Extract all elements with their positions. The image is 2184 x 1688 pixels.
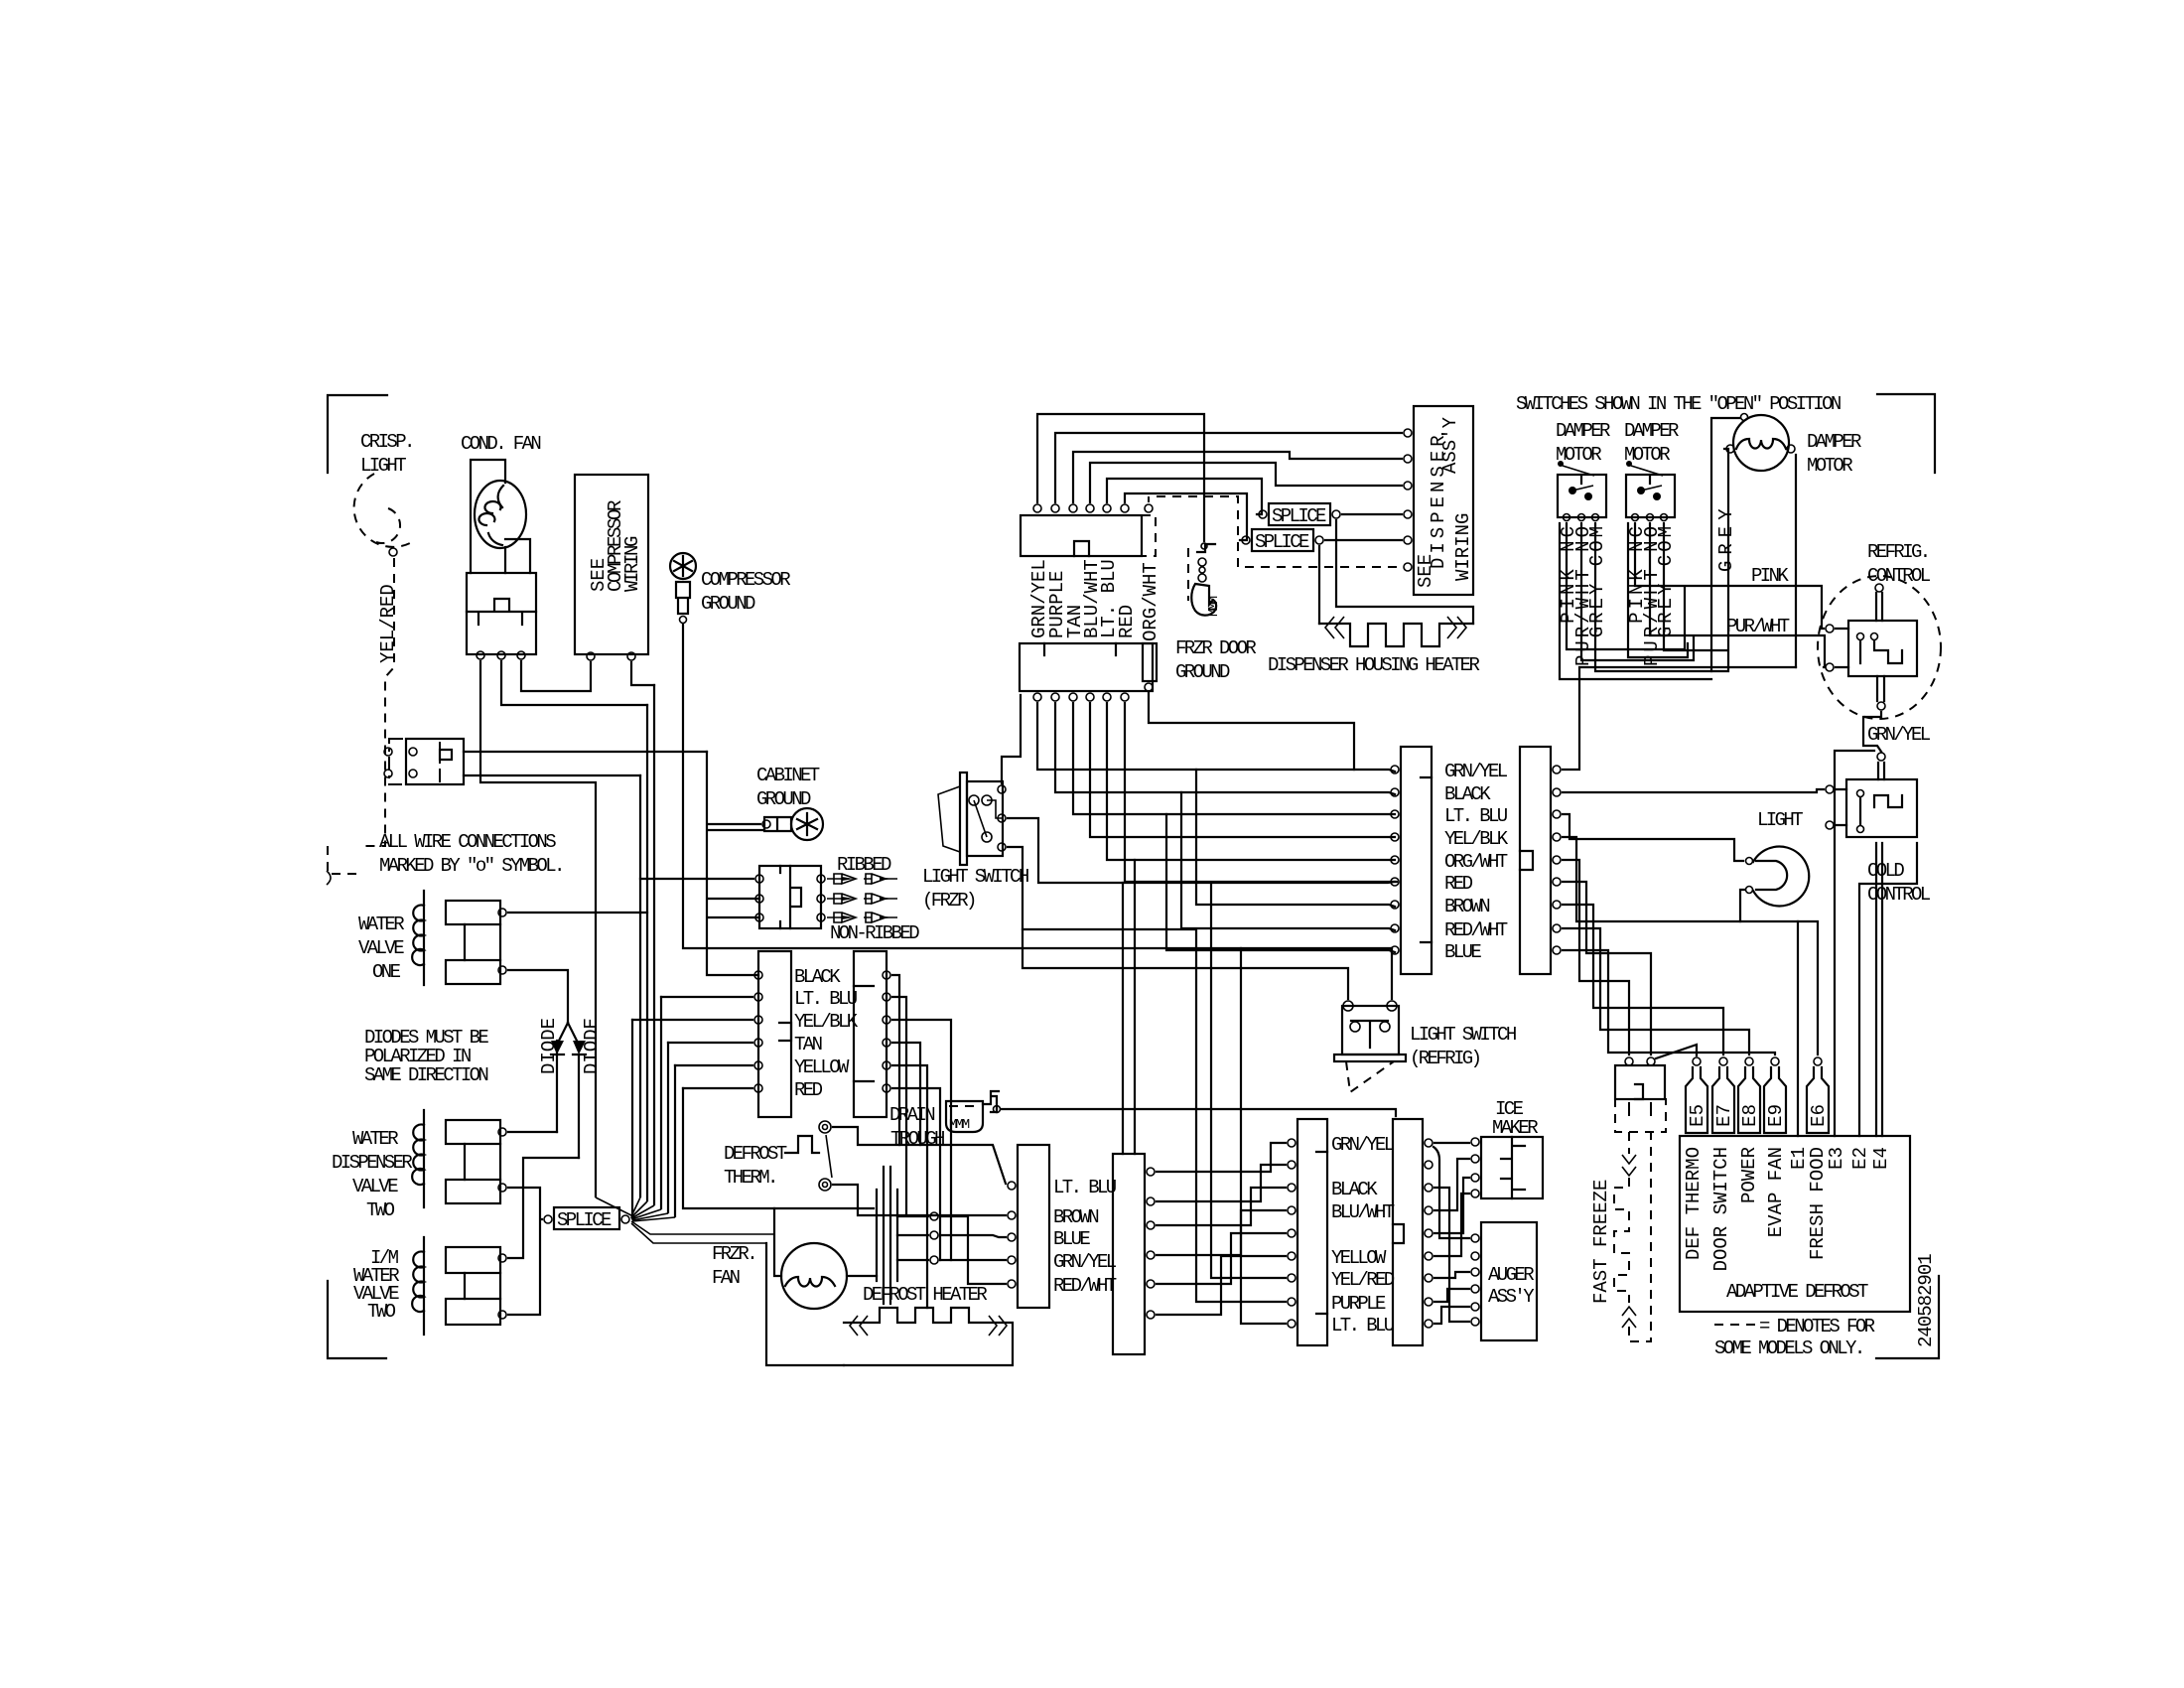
defrost timer relay (dash-dot outline) [389, 739, 440, 784]
left-mid connector female block [758, 951, 791, 1117]
svg-text:FAST FREEZE: FAST FREEZE [1590, 1180, 1612, 1304]
connector terminals right [817, 875, 825, 883]
wire compressor box pin2 to bundle [631, 662, 654, 685]
svg-text:TWO: TWO [367, 1301, 396, 1323]
wire row1 right [892, 975, 899, 1145]
wire relay to cabinet ground riser [464, 751, 707, 753]
wire thermo t3 [940, 1259, 1006, 1261]
svg-text:LIGHT SWITCH: LIGHT SWITCH [1410, 1024, 1516, 1046]
wire fast freeze t2 to E5 [1656, 1045, 1697, 1058]
svg-text:GREY: GREY [1715, 502, 1737, 572]
switch blade [974, 800, 987, 837]
wire dispenser valve bottom to splice [508, 1188, 542, 1315]
wire splice2 down to heater [1318, 546, 1320, 624]
wire to defrost heater return [766, 1243, 844, 1365]
corner mark bottom-right [1876, 1276, 1939, 1358]
svg-text:DAMPER: DAMPER [1807, 431, 1861, 453]
diode right [568, 1023, 579, 1045]
svg-text:RED/WHT: RED/WHT [1053, 1275, 1117, 1297]
svg-text:BLUE: BLUE [1053, 1228, 1090, 1250]
E9 terminal [1771, 1057, 1779, 1065]
svg-text:MAKER: MAKER [1492, 1117, 1538, 1139]
wire thermo t1 [940, 1216, 1006, 1284]
water valve one [423, 891, 425, 985]
freezer fan motor [781, 1243, 847, 1309]
wire connector t1 to auger t1 [1433, 1147, 1469, 1238]
svg-text:NON-RIBBED: NON-RIBBED [830, 922, 919, 944]
wire pin6 to splice [1125, 493, 1247, 540]
wire feed row8 [1181, 792, 1395, 930]
wire drop pin2 [1055, 703, 1395, 794]
svg-text:E6: E6 [1808, 1104, 1830, 1127]
light switch REFRIG base [1334, 1055, 1406, 1061]
crisper light bulb (dashed arc) [354, 474, 412, 547]
wire feed row9 [1166, 814, 1395, 952]
svg-text:MARKED BY "o" SYMBOL.: MARKED BY "o" SYMBOL. [379, 855, 563, 877]
svg-text:DISPENSER HOUSING HEATER: DISPENSER HOUSING HEATER [1268, 654, 1479, 676]
wire pink bus [1567, 523, 1824, 649]
wire pin4 [1090, 463, 1402, 502]
crisper light terminal [389, 548, 397, 556]
wire k3 to light [1563, 814, 1743, 861]
svg-text:LIGHT SWITCH: LIGHT SWITCH [922, 866, 1028, 888]
svg-text:DRAIN: DRAIN [889, 1104, 934, 1126]
connector terminals [477, 651, 484, 659]
wire feed row7 [1196, 770, 1395, 907]
wire pin5 to splice [1107, 479, 1262, 514]
svg-text:EVAP FAN: EVAP FAN [1765, 1147, 1787, 1237]
svg-text:GRN/YEL: GRN/YEL [1331, 1134, 1395, 1156]
light switch REFRIG body [1342, 1006, 1399, 1055]
svg-text:GROUND: GROUND [1175, 661, 1230, 683]
svg-text:YEL/RED: YEL/RED [377, 584, 399, 663]
wire row5 right [892, 1065, 927, 1308]
cold control body [1846, 779, 1917, 837]
svg-text:E2: E2 [1849, 1147, 1871, 1170]
bottom-middle connector male [1393, 1119, 1423, 1345]
wire k6 to fast freeze [1563, 882, 1651, 1055]
refrig control body [1848, 621, 1917, 676]
refrig light bulb [1753, 847, 1809, 907]
svg-text:SAME DIRECTION: SAME DIRECTION [364, 1064, 487, 1086]
wire to auger t6 [1434, 1188, 1469, 1322]
wire k1 to damper motor [1563, 667, 1796, 770]
svg-text:VALVE: VALVE [352, 1176, 398, 1197]
svg-text:BROWN: BROWN [1053, 1206, 1098, 1228]
wire drop pin3 [1073, 703, 1395, 814]
svg-text:LIGHT: LIGHT [360, 455, 406, 477]
wire E4 pair [1876, 843, 1882, 1136]
light switch REFRIG paddle (dashed) [1346, 1061, 1394, 1092]
right-mid connector C1 [1018, 1145, 1049, 1308]
svg-text:SOME MODELS ONLY.: SOME MODELS ONLY. [1714, 1337, 1863, 1359]
left wire bundle verticals [632, 685, 675, 1216]
condenser fan connector block [467, 573, 536, 654]
svg-text:FRZR DOOR: FRZR DOOR [1175, 637, 1256, 659]
box SEE DISPENSER ASS'Y WIRING [1414, 406, 1473, 595]
wire thermo t2 [940, 1235, 1006, 1237]
svg-text:BLACK: BLACK [1331, 1179, 1378, 1200]
svg-text:= DENOTES FOR: = DENOTES FOR [1759, 1316, 1875, 1337]
svg-text:REFRIG.: REFRIG. [1867, 541, 1929, 563]
svg-text:SPLICE: SPLICE [557, 1209, 612, 1231]
dispenser housing heater element [1319, 624, 1473, 646]
wire dashed to relay lower [328, 846, 359, 874]
svg-text:YEL/RED: YEL/RED [1331, 1269, 1395, 1291]
wire E1 [1797, 921, 1799, 1136]
wire to auger t4 [1434, 1289, 1469, 1302]
wire refrig control to cold control [1863, 712, 1881, 752]
svg-text:PUR/WHT: PUR/WHT [1726, 616, 1790, 637]
frzr door connector lower half [1020, 643, 1153, 691]
wire pin2 [1055, 433, 1402, 502]
cabinet ground lug [791, 808, 823, 840]
svg-text:DAMPER: DAMPER [1556, 420, 1610, 442]
wire splice2 to dispenser box [1325, 539, 1402, 541]
connector pins upper [1033, 504, 1041, 512]
condenser fan motor [475, 481, 526, 548]
wire grey com bus [1595, 449, 1728, 671]
auger assembly box [1481, 1222, 1537, 1340]
svg-text:ASS'Y: ASS'Y [1488, 1286, 1535, 1308]
svg-text:WATER: WATER [352, 1128, 398, 1150]
svg-text:YELLOW: YELLOW [794, 1056, 850, 1078]
svg-text:TROUGH: TROUGH [890, 1128, 944, 1150]
corner mark bottom-left [328, 1281, 386, 1358]
ribbed/non-ribbed connector [759, 866, 821, 928]
svg-text:RED/WHT: RED/WHT [1444, 919, 1508, 941]
svg-text:ASS'Y: ASS'Y [1439, 416, 1461, 474]
defrost heater element [844, 1308, 1013, 1365]
right connector male block [1520, 747, 1551, 974]
wire to ice t3 [1434, 1178, 1469, 1233]
svg-text:LT. BLU: LT. BLU [1444, 805, 1508, 827]
svg-text:E8: E8 [1739, 1104, 1761, 1127]
switch internal link [987, 800, 1002, 818]
damper switch 2 [1626, 475, 1675, 517]
i/m water valve two [423, 1237, 425, 1335]
splice fan lower wires [631, 1221, 774, 1243]
svg-text:COMPRESSOR: COMPRESSOR [701, 569, 790, 591]
freezer fan loop wires [774, 1208, 877, 1276]
svg-text:LT. BLU: LT. BLU [794, 988, 858, 1010]
svg-text:MMM: MMM [1206, 596, 1222, 617]
defrost thermostat [785, 1136, 819, 1153]
svg-text:MMM: MMM [949, 1117, 970, 1133]
splice box lower [1252, 529, 1313, 551]
connector terminals left [755, 875, 763, 883]
wire k4 bus to E1/E6 [1563, 837, 1818, 1055]
wire splice1 to dispenser box [1342, 513, 1402, 515]
svg-text:GROUND: GROUND [701, 593, 755, 615]
defrost thermostat plates [877, 1167, 897, 1304]
svg-text:VALVE: VALVE [358, 937, 404, 959]
svg-text:THERM.: THERM. [724, 1167, 776, 1189]
svg-text:CRISP.: CRISP. [360, 431, 413, 453]
wire connector to ice maker t1 [1434, 1142, 1469, 1144]
svg-text:RED: RED [1116, 605, 1138, 638]
svg-text:BLACK: BLACK [1444, 783, 1491, 805]
wire therm bottom to connector [833, 1185, 1006, 1215]
wire left-mid rows to bundle [632, 997, 752, 1088]
wire to ice t4 [1434, 1194, 1469, 1256]
svg-text:ONE: ONE [372, 961, 401, 983]
svg-text:(FRZR): (FRZR) [922, 890, 975, 912]
wire right diode to i/m valve top [508, 1158, 579, 1258]
wire drop pin7 [1149, 693, 1354, 770]
wire E3 [1835, 751, 1874, 1136]
svg-text:DOOR SWITCH: DOOR SWITCH [1710, 1147, 1732, 1271]
wire switch t2 right-down [1008, 818, 1397, 883]
svg-text:YEL/BLK: YEL/BLK [794, 1011, 859, 1033]
grey damper motor [1733, 415, 1789, 471]
wire YEL/RED dashed [359, 558, 394, 846]
wire motor right down [1795, 455, 1797, 667]
wire cabinet ground [707, 752, 764, 975]
corner mark top-left [328, 395, 387, 473]
dashed wire pin7 [1149, 496, 1402, 567]
wire drain trough to connector [1002, 1109, 1396, 1116]
connector pins lower [1033, 693, 1041, 701]
svg-text:POWER: POWER [1738, 1147, 1760, 1203]
svg-text:PINK: PINK [1751, 565, 1789, 587]
svg-text:ORG/WHT: ORG/WHT [1140, 562, 1161, 641]
wire to auger t3 [1434, 1272, 1469, 1278]
wire row6 right [892, 1088, 940, 1260]
ribbed wire arrows row2 [827, 894, 897, 904]
svg-text:GRN/YEL: GRN/YEL [1053, 1251, 1117, 1273]
svg-text:ADAPTIVE DEFROST: ADAPTIVE DEFROST [1726, 1281, 1868, 1303]
wire pin3 [1073, 452, 1402, 502]
wire to ice t2 [1434, 1159, 1469, 1210]
wire to switch terminal 2 [1391, 948, 1393, 999]
wire therm top to connector [833, 1127, 1006, 1184]
svg-text:240582901: 240582901 [1915, 1254, 1937, 1347]
condenser fan coil [478, 486, 503, 545]
wire switch t1 up [1002, 695, 1021, 783]
svg-text:E4: E4 [1870, 1147, 1892, 1170]
svg-text:WATER: WATER [358, 914, 404, 935]
wires C2 staircase to bottom connector [1157, 1143, 1286, 1172]
svg-text:DEFROST HEATER: DEFROST HEATER [863, 1284, 987, 1306]
ribbed wire arrows row1 [827, 874, 897, 884]
ribbed wire arrows row3 [827, 913, 897, 922]
switch terminals [969, 795, 979, 805]
ice maker box [1481, 1137, 1543, 1198]
svg-text:LIGHT: LIGHT [1757, 809, 1803, 831]
relay terminals [384, 748, 392, 756]
svg-text:LT. BLU: LT. BLU [1331, 1315, 1395, 1336]
fast freeze dashed mate [1615, 1099, 1666, 1132]
wire ribbed row1 to bundle [640, 878, 753, 880]
fast freeze dashed wire loop [1614, 1132, 1651, 1341]
svg-text:FAN: FAN [712, 1267, 740, 1289]
wire motor aux terminal [1711, 418, 1739, 671]
wire damper aux verticals [1560, 523, 1711, 679]
wire fan pin1 down [480, 661, 596, 1196]
wire pur/wht bus [1581, 523, 1825, 667]
light switch FRZR mounting bar [960, 773, 967, 865]
wire drop pin4 [1090, 703, 1395, 837]
wire E2 [1859, 843, 1917, 1136]
svg-text:YELLOW: YELLOW [1331, 1247, 1387, 1269]
svg-text:ORG/WHT: ORG/WHT [1444, 851, 1508, 873]
wire left diode to dispenser valve top [508, 1131, 557, 1133]
svg-text:GROUND: GROUND [756, 788, 811, 810]
pin7 org/wht stub [1143, 643, 1157, 681]
svg-text:RED: RED [794, 1079, 823, 1101]
condenser fan motor housing [471, 460, 530, 573]
refrig control dashed circle [1818, 576, 1941, 719]
svg-text:E7: E7 [1713, 1104, 1735, 1127]
wire relay to bundle [464, 774, 640, 776]
svg-text:BLUE: BLUE [1444, 941, 1481, 963]
svg-text:DEF THERMO: DEF THERMO [1683, 1147, 1705, 1260]
svg-text:PURPLE: PURPLE [1331, 1293, 1386, 1315]
svg-text:RED: RED [1444, 873, 1473, 895]
wire valve1 bottom to diode apex [508, 970, 568, 1023]
svg-text:MOTOR: MOTOR [1807, 455, 1852, 477]
svg-text:DEFROST: DEFROST [724, 1143, 787, 1165]
svg-text:E3: E3 [1826, 1147, 1847, 1170]
wire k2 to cold control [1563, 789, 1824, 792]
wire k5 to fast freeze [1563, 860, 1629, 1055]
svg-text:CABINET: CABINET [756, 765, 820, 786]
left-mid connector male block [854, 951, 887, 1117]
svg-text:BLU/WHT: BLU/WHT [1331, 1201, 1395, 1223]
wires into connector C2 from above [1123, 860, 1135, 1154]
wire valve1 top to bundle [508, 912, 647, 914]
svg-text:GRN/YEL: GRN/YEL [1867, 724, 1931, 746]
svg-text:COLD: COLD [1867, 860, 1904, 882]
diode left [557, 1023, 568, 1132]
light switch FRZR body [967, 781, 1003, 856]
svg-text:GRN/YEL: GRN/YEL [1444, 761, 1508, 782]
svg-text:DISPENSER: DISPENSER [332, 1152, 412, 1174]
dispenser box terminals [1404, 429, 1412, 437]
svg-text:DAMPER: DAMPER [1624, 420, 1679, 442]
wires from center bundle to bottom connector [1211, 883, 1286, 1278]
wire row2 right [892, 997, 906, 1215]
wire fan pin3 to compressor box [521, 661, 591, 691]
wire splice1 down to heater return [1336, 520, 1473, 624]
edge tick left [327, 871, 331, 885]
svg-text:E5: E5 [1687, 1104, 1708, 1127]
svg-text:FRZR.: FRZR. [712, 1243, 755, 1265]
compressor ground [670, 553, 696, 579]
right-mid connector C2 [1113, 1154, 1145, 1354]
bottom-middle connector female [1297, 1119, 1327, 1345]
E6 terminal [1814, 1057, 1822, 1065]
svg-text:DIODE: DIODE [538, 1018, 560, 1074]
E8 terminal [1745, 1057, 1753, 1065]
splice fan wires [596, 1197, 675, 1221]
right connector female block [1401, 747, 1432, 974]
svg-text:GREY COM: GREY COM [1586, 523, 1608, 637]
wire pin1 to door ground [1037, 414, 1204, 541]
light switch FRZR paddle [938, 786, 960, 852]
svg-text:CONTROL: CONTROL [1867, 565, 1931, 587]
wire compressor ground down and right [683, 625, 1392, 948]
splice box left [554, 1207, 619, 1229]
water dispenser valve two [423, 1110, 425, 1207]
svg-text:SWITCHES SHOWN IN THE "OPEN" P: SWITCHES SHOWN IN THE "OPEN" POSITION [1516, 393, 1841, 415]
wire drop pin1 [1037, 703, 1395, 772]
svg-text:TWO: TWO [366, 1199, 395, 1221]
wire k7 to E7 [1563, 905, 1723, 1055]
wire row4 right [892, 1043, 920, 1145]
svg-text:AUGER: AUGER [1488, 1264, 1534, 1286]
box SEE COMPRESSOR WIRING [575, 475, 648, 654]
damper switch 1 [1558, 475, 1606, 517]
svg-text:TAN: TAN [794, 1034, 822, 1055]
wire row3 right [892, 1020, 951, 1260]
svg-text:COND. FAN: COND. FAN [461, 433, 540, 455]
splice box upper [1269, 503, 1330, 525]
svg-text:GREY COM: GREY COM [1655, 523, 1677, 637]
wire red row to frzr fan loop [683, 1088, 774, 1208]
adaptive defrost board [1680, 1136, 1910, 1312]
frzr door ground [1197, 544, 1215, 552]
wire to auger t5 [1434, 1307, 1469, 1324]
svg-text:WIRING: WIRING [621, 536, 643, 592]
leader lines [1558, 461, 1564, 467]
svg-text:DIODE: DIODE [581, 1018, 603, 1074]
wire drop pin6 [1125, 703, 1395, 882]
wire k8 to E8 [1563, 928, 1749, 1055]
E7 terminal [1719, 1057, 1727, 1065]
svg-text:RIBBED: RIBBED [837, 854, 891, 876]
svg-text:(REFRIG): (REFRIG) [1410, 1048, 1480, 1069]
wire k9 to E9 [1563, 950, 1775, 1055]
svg-text:SPLICE: SPLICE [1255, 531, 1309, 553]
wire switch t3 right-down [1008, 847, 1348, 999]
svg-text:BROWN: BROWN [1444, 896, 1489, 917]
svg-text:ALL WIRE CONNECTIONS: ALL WIRE CONNECTIONS [379, 831, 556, 853]
wire drop pin5 [1107, 703, 1395, 860]
wire light bottom [1740, 890, 1744, 921]
box terminals [587, 652, 595, 660]
wire fan pin2 to bundle [501, 661, 647, 705]
relay body [406, 739, 464, 784]
svg-text:WIRING: WIRING [1452, 513, 1474, 581]
E5 terminal [1693, 1057, 1701, 1065]
svg-text:BLACK: BLACK [794, 966, 841, 988]
drain trough heater [946, 1101, 983, 1132]
corner mark top-right [1877, 394, 1935, 473]
svg-text:LT. BLU: LT. BLU [1053, 1177, 1117, 1198]
svg-text:E9: E9 [1765, 1104, 1787, 1127]
svg-text:YEL/BLK: YEL/BLK [1444, 828, 1509, 850]
frzr door connector upper half [1021, 515, 1142, 556]
legend dashed [1714, 1324, 1755, 1326]
fast freeze connector [1615, 1065, 1665, 1099]
svg-text:SPLICE: SPLICE [1272, 505, 1326, 527]
